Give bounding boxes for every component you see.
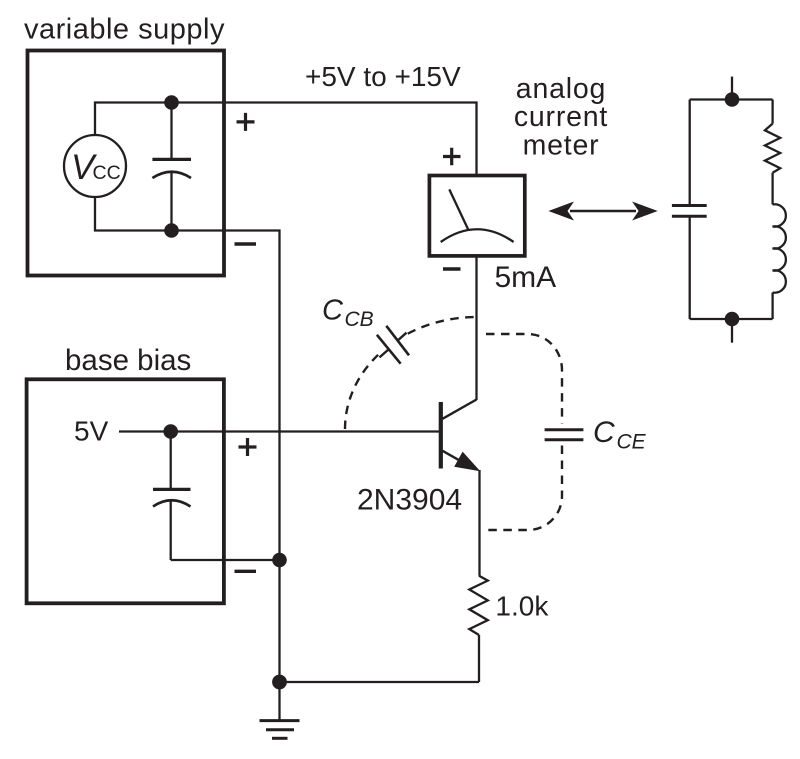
wire: emitter down to resistor — [478, 470, 480, 576]
node D junction dot — [272, 553, 287, 568]
node C junction dot — [163, 424, 178, 439]
base bar — [439, 402, 443, 469]
wire: base wire from 5V to Q1 base — [119, 430, 439, 432]
svg-text:2N3904: 2N3904 — [357, 483, 462, 516]
capacitor C2 (base bypass) — [153, 432, 191, 561]
node E junction dot — [272, 675, 287, 690]
minus sign (meter -) — [443, 267, 461, 270]
wire: tank right lower — [771, 293, 773, 320]
variable supply box — [28, 51, 225, 276]
wire: meter bottom to collector — [475, 255, 477, 400]
wire: Vcc top to node A — [95, 103, 172, 136]
svg-text:CC: CC — [93, 162, 121, 184]
svg-text:CE: CE — [617, 431, 647, 454]
base bias box — [27, 379, 224, 603]
double-headed arrow — [548, 202, 657, 221]
transistor Q1 2N3904 — [441, 400, 481, 472]
capacitor C_CB symbol — [377, 326, 409, 364]
emitter arrowhead — [454, 452, 480, 472]
dashed path C_CB (collector-base capacitance) — [345, 317, 477, 429]
inductor L1 (tank) — [773, 204, 786, 292]
plus sign (meter +) — [443, 148, 461, 166]
meter scale arc — [441, 229, 514, 242]
tank bottom node dot — [725, 312, 740, 327]
svg-text:C: C — [322, 295, 344, 327]
svg-text:1.0k: 1.0k — [495, 590, 549, 621]
wire: tank left upper — [689, 100, 691, 206]
plus sign (base bias +) — [239, 438, 257, 456]
wire: bottom return from ground node to emitter branch — [280, 681, 480, 683]
svg-text:variable supply: variable supply — [24, 14, 225, 46]
dashed path C_CE upper (collector side) — [486, 334, 562, 424]
emitter lead — [443, 451, 468, 465]
wire: tank top — [690, 98, 773, 100]
svg-text:CB: CB — [345, 308, 374, 331]
wire: C2 bottom to minus rail — [171, 559, 280, 561]
wire: tank right upper — [771, 100, 773, 124]
minus sign (supply -) — [235, 242, 257, 245]
svg-text:C: C — [593, 416, 615, 449]
capacitor C3 (tank) — [672, 206, 707, 217]
svg-text:5mA: 5mA — [495, 261, 557, 294]
tank bottom stub — [731, 319, 733, 343]
wire: Vcc bottom to node B — [95, 197, 172, 231]
capacitor C1 (supply filter) — [152, 103, 191, 231]
capacitor C_CE symbol — [545, 430, 584, 440]
minus sign (base bias -) — [235, 570, 257, 573]
svg-text:meter: meter — [523, 130, 600, 162]
node A junction dot — [164, 95, 179, 110]
svg-text:5V: 5V — [74, 416, 109, 447]
tank circuit: top stub — [731, 77, 733, 100]
svg-text:current: current — [514, 101, 608, 133]
node B junction dot — [164, 223, 179, 238]
meter M1 (analog current meter) — [429, 176, 524, 256]
wire: minus rail from node B down to ground node — [172, 231, 280, 683]
wire: tank right middle — [771, 173, 773, 205]
tank top node dot — [725, 92, 740, 107]
wire: tank left lower — [689, 216, 691, 319]
source V_CC circle U1 — [64, 135, 126, 197]
wire: ground stem — [278, 682, 280, 720]
svg-text:base bias: base bias — [65, 344, 191, 377]
meter needle — [449, 189, 468, 229]
wire: top rail from node A to meter — [172, 103, 477, 176]
wire: tank bottom — [690, 318, 773, 320]
dashed path C_CE lower (emitter side) — [488, 446, 562, 531]
resistor R2 (tank) — [765, 124, 780, 173]
collector lead — [443, 400, 477, 419]
svg-text:+5V to +15V: +5V to +15V — [305, 61, 461, 92]
ground — [260, 721, 300, 739]
plus sign (supply +) — [237, 113, 255, 131]
resistor R1 1.0k — [469, 576, 488, 635]
wire: resistor bottom to return — [478, 635, 480, 682]
white gap for C_CB capacitor — [378, 330, 408, 360]
